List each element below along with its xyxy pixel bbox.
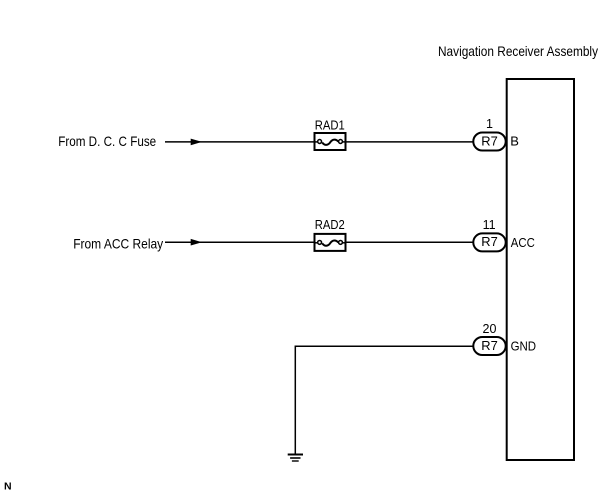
- arrow: [191, 239, 202, 246]
- svg-text:20: 20: [483, 322, 497, 336]
- fuse RAD1: [315, 133, 346, 150]
- connector R7 pin 20: [473, 337, 505, 355]
- wire: [347, 241, 474, 243]
- connector R7 pin 11: [473, 233, 505, 251]
- svg-text:From ACC Relay: From ACC Relay: [73, 235, 163, 251]
- svg-text:B: B: [510, 133, 519, 148]
- svg-text:Navigation Receiver Assembly: Navigation Receiver Assembly: [438, 43, 598, 59]
- svg-text:N: N: [4, 481, 12, 493]
- svg-text:RAD2: RAD2: [315, 217, 345, 232]
- wire: [165, 141, 314, 143]
- svg-text:From D. C. C Fuse: From D. C. C Fuse: [58, 133, 156, 149]
- wire: [347, 141, 474, 143]
- svg-text:RAD1: RAD1: [315, 117, 345, 132]
- svg-text:GND: GND: [511, 339, 536, 354]
- fuse RAD2: [315, 234, 346, 251]
- wire: [295, 346, 473, 453]
- wire: [165, 241, 314, 243]
- ground: [288, 455, 303, 462]
- svg-text:1: 1: [486, 117, 493, 131]
- svg-text:ACC: ACC: [511, 235, 535, 250]
- svg-text:11: 11: [483, 218, 496, 232]
- arrow: [191, 139, 202, 146]
- connector box Navigation Receiver Assembly: [507, 79, 574, 460]
- connector R7 pin 1: [473, 133, 505, 151]
